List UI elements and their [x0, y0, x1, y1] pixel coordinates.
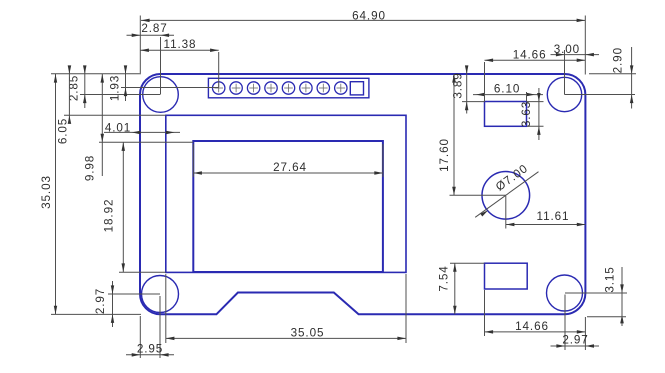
svg-text:14.66: 14.66 — [513, 48, 547, 61]
svg-text:11.38: 11.38 — [164, 38, 197, 51]
dimension 6.05 glass top offset — [68, 66, 70, 121]
dimension 2.87 hole offset — [127, 34, 175, 36]
dimension 3.15 bottom-right hole vertical — [621, 267, 623, 326]
svg-text:6.05: 6.05 — [57, 118, 70, 144]
svg-text:2.97: 2.97 — [562, 334, 588, 347]
svg-text:2.97: 2.97 — [94, 288, 107, 314]
svg-text:35.03: 35.03 — [40, 175, 53, 209]
dimension 2.85 top-left hole vertical — [84, 66, 86, 108]
dimension 3.89 top rect offset — [466, 66, 468, 114]
dimension 35.03 overall height — [55, 74, 57, 314]
dimension 4.01 glass left offset — [104, 131, 180, 133]
dimension 18.92 display height — [122, 142, 124, 272]
dimension 14.66 bottom-right — [485, 331, 586, 333]
dimension 27.64 display area width — [193, 172, 383, 174]
dimension 9.98 display top offset — [101, 74, 103, 176]
dimension 2.90 top-right hole vertical — [631, 47, 633, 109]
dimension 17.60 hole center vertical — [453, 74, 455, 195]
dimension 2.97 bottom-right hole horizontal — [551, 345, 600, 347]
svg-text:11.61: 11.61 — [537, 210, 570, 223]
svg-text:3.89: 3.89 — [451, 72, 464, 98]
dimension 14.66 top-right — [485, 59, 586, 61]
display glass outline — [166, 115, 406, 272]
capacitor footprint rectangle bottom-right — [485, 263, 528, 289]
mounting hole bottom-right — [547, 275, 583, 311]
svg-text:3.15: 3.15 — [604, 266, 617, 292]
dimension leader diameter 7.00 — [475, 172, 538, 218]
pin holes 1-8 with drill crosses — [213, 82, 225, 94]
dimension 7.54 bottom rect offset — [454, 263, 456, 314]
svg-text:2.95: 2.95 — [137, 342, 163, 355]
svg-text:9.98: 9.98 — [84, 155, 97, 181]
svg-text:2.87: 2.87 — [141, 22, 167, 35]
dimension 64.90 overall width — [141, 19, 585, 21]
dimension 11.38 first pin offset — [140, 49, 218, 51]
dimension 6.10 rect width — [473, 94, 543, 96]
svg-text:3.63: 3.63 — [520, 101, 533, 127]
mounting hole top-right — [547, 77, 581, 111]
dimension 2.95 bottom-left hole horizontal — [126, 354, 174, 356]
svg-text:4.01: 4.01 — [105, 122, 131, 135]
dimension 11.61 hole horizontal — [506, 224, 586, 226]
capacitor footprint rectangle top-right — [485, 102, 527, 127]
PCB board outline with rounded corners and bottom notch — [140, 74, 585, 314]
svg-text:27.64: 27.64 — [273, 161, 307, 174]
dimension 2.97 bottom-left hole vertical — [112, 281, 114, 327]
hole diameter 7.00 circle — [482, 172, 530, 220]
svg-text:14.66: 14.66 — [515, 320, 549, 333]
dimension 35.05 glass width — [166, 337, 406, 339]
svg-text:3.00: 3.00 — [554, 43, 580, 56]
mounting hole top-left — [143, 77, 179, 113]
pin header outline rectangle — [208, 78, 369, 98]
svg-text:6.10: 6.10 — [494, 83, 520, 96]
svg-text:7.54: 7.54 — [438, 265, 451, 291]
mounting hole bottom-left — [142, 276, 179, 313]
svg-text:2.90: 2.90 — [611, 47, 624, 73]
svg-text:64.90: 64.90 — [352, 9, 386, 22]
dimension 3.00 hole to edge — [551, 54, 600, 56]
svg-text:18.92: 18.92 — [103, 199, 116, 233]
svg-text:17.60: 17.60 — [438, 138, 451, 172]
svg-text:1.93: 1.93 — [109, 75, 122, 101]
square pad pin 9 — [350, 82, 363, 95]
svg-text:35.05: 35.05 — [291, 327, 325, 340]
dimension 3.63 rect height — [538, 88, 540, 140]
active display area rectangle — [193, 141, 383, 272]
dimension 1.93 pin row vertical — [125, 66, 127, 101]
